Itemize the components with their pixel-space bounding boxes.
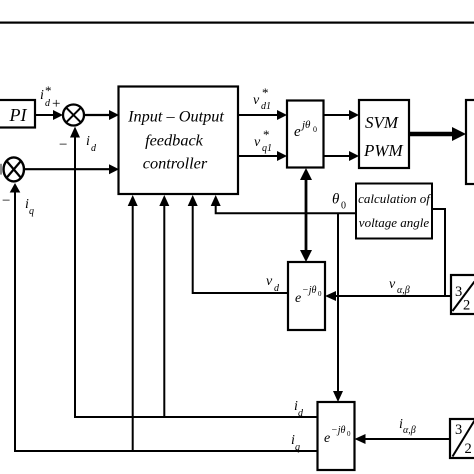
svg-text:0: 0 — [347, 430, 351, 438]
wire S1 to controller — [84, 110, 119, 120]
svg-text:feedback: feedback — [145, 131, 204, 150]
wire vq1* controller to ejtheta — [238, 151, 287, 161]
wire iq from current rotation block — [15, 192, 318, 451]
summing junction S2 — [4, 157, 24, 181]
label iq feedback at S2 — [25, 197, 34, 217]
wire valphabeta tap to calculation block — [432, 209, 445, 296]
wire id from current rotation block — [75, 137, 318, 417]
svg-text:−: − — [2, 193, 10, 209]
label id output — [294, 399, 304, 419]
calculation of voltage angle block — [356, 184, 432, 239]
label theta0 — [332, 192, 346, 212]
label id feedback at S1 — [86, 134, 97, 154]
wire theta0 branch down to current transform — [333, 213, 343, 402]
svg-text:2: 2 — [465, 441, 472, 457]
svg-text:3: 3 — [455, 422, 462, 438]
summing junction S1 — [63, 105, 84, 126]
svg-text:q: q — [29, 206, 34, 217]
wire vd feedback into controller pin 3 — [188, 195, 288, 293]
svg-text:−jθ: −jθ — [302, 285, 317, 296]
inverter block at right edge — [466, 100, 474, 184]
svg-text:d1: d1 — [261, 101, 271, 112]
wire vd1* controller to ejtheta — [238, 110, 287, 120]
wire S2 to controller — [24, 164, 119, 174]
label vd — [266, 274, 280, 294]
label ialphabeta — [399, 417, 416, 436]
svg-text:i: i — [40, 88, 44, 103]
svg-text:−: − — [59, 137, 67, 153]
svg-text:e: e — [324, 431, 330, 446]
svg-text:e: e — [295, 291, 301, 306]
label vq1* — [254, 127, 272, 154]
svg-text:v: v — [266, 274, 273, 289]
svg-text:v: v — [253, 93, 260, 108]
svg-text:−jθ: −jθ — [331, 425, 346, 436]
current rotation block e-jtheta0 — [318, 402, 355, 470]
svg-text:jθ: jθ — [300, 119, 311, 131]
svg-text:Input – Output: Input – Output — [127, 106, 224, 125]
PI block — [0, 100, 35, 128]
svg-text:voltage angle: voltage angle — [359, 215, 430, 230]
svg-text:SVM: SVM — [365, 113, 399, 132]
arrowhead iq into S2 — [10, 183, 21, 193]
svg-text:α,β: α,β — [403, 425, 416, 436]
svg-text:0: 0 — [341, 201, 346, 212]
3/2 transform block upper — [451, 275, 474, 314]
wire ejtheta to SVM lower — [324, 151, 360, 161]
label iq output — [291, 433, 300, 453]
grey stub at left edge into S2 — [0, 164, 2, 175]
svg-text:v: v — [389, 277, 396, 292]
svg-text:q1: q1 — [262, 143, 272, 154]
rotation block ejtheta0 — [287, 101, 324, 168]
SVM PWM block — [359, 100, 409, 168]
wire id feedback into controller pin 2 — [159, 195, 169, 417]
svg-text:i: i — [86, 134, 90, 149]
label id* reference — [40, 83, 60, 112]
3/2 transform block lower — [450, 419, 474, 458]
svg-text:controller: controller — [143, 153, 208, 172]
controller block: Input-Output feedback controller — [119, 87, 239, 195]
wire theta0 into controller pin 4 — [211, 195, 356, 213]
theta0 double arrow to ejtheta and e-jtheta — [300, 168, 312, 262]
wire iq feedback into controller pin 1 — [128, 195, 138, 451]
label vd1* — [253, 85, 271, 112]
svg-text:PI: PI — [9, 105, 28, 125]
svg-text:+: + — [52, 96, 60, 112]
top rule — [0, 22, 474, 24]
svg-text:0: 0 — [318, 290, 322, 298]
label valphabeta — [389, 277, 410, 296]
svg-text:θ: θ — [332, 192, 340, 208]
wire valphabeta into voltage rotation block — [325, 291, 451, 301]
voltage rotation block e-jtheta0 — [288, 262, 325, 330]
svg-text:*: * — [45, 83, 52, 98]
svg-text:0: 0 — [313, 125, 317, 134]
svg-text:3: 3 — [455, 284, 462, 300]
svg-text:v: v — [254, 135, 261, 150]
thick wire SVM to inverter block — [409, 127, 466, 141]
svg-text:2: 2 — [463, 298, 470, 314]
wire ialphabeta into current rotation block — [355, 434, 451, 444]
wire ejtheta to SVM upper — [324, 110, 360, 120]
svg-text:*: * — [262, 85, 269, 100]
svg-text:e: e — [294, 124, 301, 140]
arrowhead id into S1 — [70, 127, 80, 138]
svg-text:*: * — [263, 127, 270, 142]
svg-text:PWM: PWM — [363, 141, 404, 160]
svg-text:calculation of: calculation of — [358, 191, 432, 206]
svg-text:α,β: α,β — [397, 285, 410, 296]
wire PI to summing junction S1 — [35, 110, 63, 120]
